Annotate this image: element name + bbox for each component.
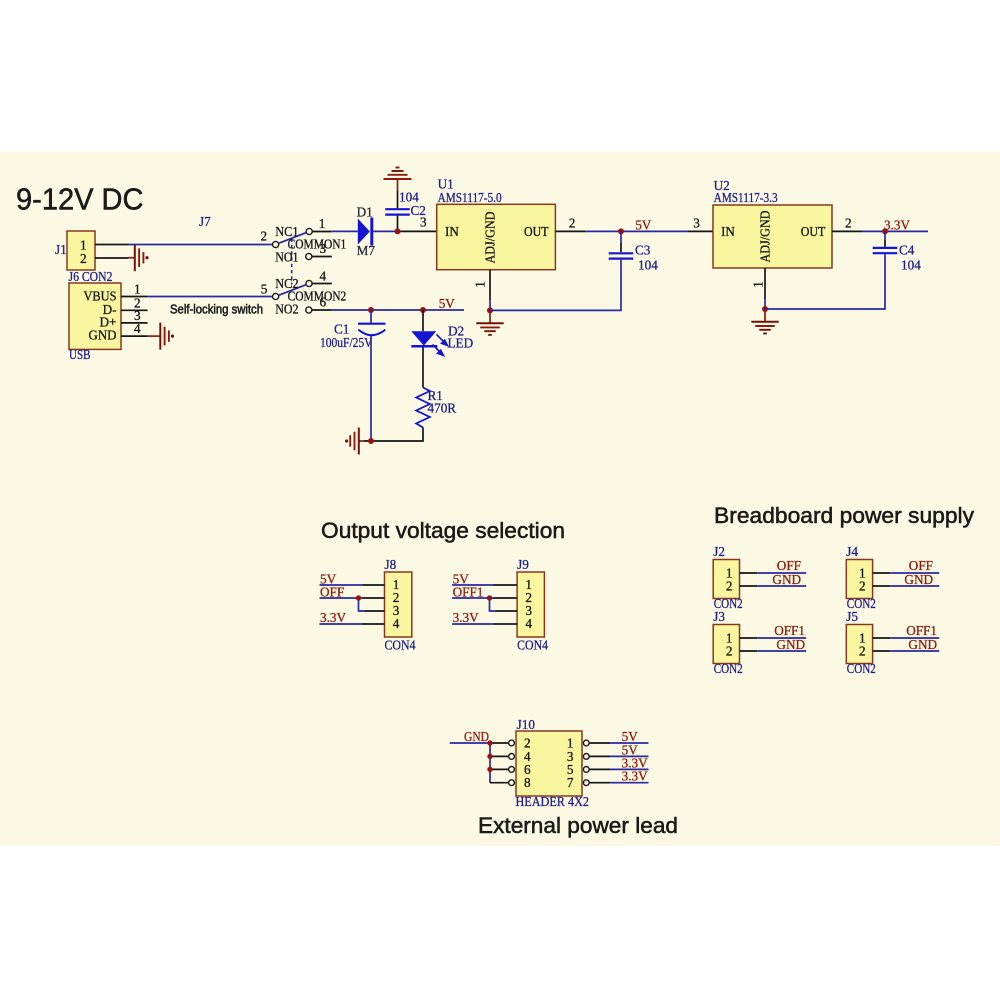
svg-text:ADJ/GND: ADJ/GND xyxy=(758,211,773,263)
wire J2 pin2 xyxy=(740,585,758,587)
wire GND to J10 xyxy=(450,742,490,744)
connector J4 xyxy=(846,560,872,599)
svg-text:NO2: NO2 xyxy=(275,302,298,317)
wire U2 IN pin3 stub xyxy=(687,230,713,232)
svg-text:GND: GND xyxy=(772,572,801,587)
pin circle J10 pin6 xyxy=(509,767,515,773)
svg-text:Output voltage selection: Output voltage selection xyxy=(321,518,565,543)
svg-text:GND: GND xyxy=(904,572,933,587)
junction D2 tap xyxy=(420,307,426,313)
wire D1 cathode to node xyxy=(373,230,400,232)
capacitor C2 xyxy=(385,208,410,210)
capacitor C3 xyxy=(609,252,634,254)
svg-text:OFF1: OFF1 xyxy=(774,623,805,638)
svg-text:J6 CON2: J6 CON2 xyxy=(69,269,113,284)
junction gnd C1 R1 xyxy=(368,438,374,444)
wire OFF1 to J9 pin2 xyxy=(452,597,493,599)
switch J7 NC1 circle pin1 xyxy=(306,228,312,234)
wire 5V to J9 pin1 xyxy=(452,584,493,586)
ground at J1 pin2 xyxy=(129,257,135,259)
switch J7 NC2 circle pin4 xyxy=(306,280,312,286)
svg-text:USB: USB xyxy=(69,347,91,362)
junction J10 gnd row1 xyxy=(487,740,492,745)
pin circle J10 pin4 xyxy=(509,754,515,760)
switch J7 link dashed xyxy=(291,239,293,285)
wire switch pin6 stub xyxy=(312,309,332,311)
wire switch pin1 to D1 anode xyxy=(332,230,358,232)
wire J4 pin1 xyxy=(873,572,891,574)
wire R1 bottom xyxy=(364,428,423,442)
wire J10 right stub pin3 xyxy=(589,755,610,757)
wire branch to J8 pin3 xyxy=(359,598,365,611)
wire J1 pin1 stub xyxy=(95,244,129,246)
wire U2 OUT pin2 stub xyxy=(832,230,862,232)
led D2 xyxy=(411,331,436,345)
connector J3 xyxy=(713,625,739,664)
svg-text:C2: C2 xyxy=(411,203,426,218)
resistor R1 xyxy=(416,388,430,428)
junction node D1 C2 U1 xyxy=(395,228,401,234)
connector J10 HEADER 4X2 xyxy=(516,731,582,796)
svg-text:ADJ/GND: ADJ/GND xyxy=(483,212,498,264)
wire J10 left stub pin8 xyxy=(490,782,508,784)
svg-text:GND: GND xyxy=(776,637,805,652)
junction J10 gnd row3 xyxy=(487,767,492,772)
svg-text:1: 1 xyxy=(319,216,326,231)
wire J3 pin1 xyxy=(740,637,758,639)
svg-text:3.3V: 3.3V xyxy=(884,218,910,233)
op-amp U1 AMS1117-5.0 body xyxy=(437,204,556,269)
wire J5 pin1 xyxy=(873,637,891,639)
svg-text:J5: J5 xyxy=(846,609,858,624)
svg-text:2: 2 xyxy=(261,229,268,244)
junction C1 tap xyxy=(368,307,374,313)
ground above C2 xyxy=(397,179,399,191)
svg-text:8: 8 xyxy=(524,775,531,790)
svg-text:3: 3 xyxy=(693,216,700,231)
svg-text:1: 1 xyxy=(751,281,766,288)
junction U1 gnd xyxy=(487,307,493,313)
junction U2 gnd xyxy=(762,306,768,312)
svg-text:3.3V: 3.3V xyxy=(453,610,479,625)
svg-text:D1: D1 xyxy=(357,205,373,220)
svg-text:J10: J10 xyxy=(517,717,536,732)
svg-text:IN: IN xyxy=(445,224,459,239)
svg-text:4: 4 xyxy=(525,616,532,631)
wire C4 to ground run xyxy=(765,254,885,309)
svg-text:C4: C4 xyxy=(899,243,915,258)
svg-text:2: 2 xyxy=(845,216,852,231)
connector J6 USB xyxy=(69,283,121,349)
svg-text:104: 104 xyxy=(901,258,921,273)
svg-text:J2: J2 xyxy=(713,544,725,559)
svg-text:J4: J4 xyxy=(846,544,858,559)
op-amp U2 AMS1117-3.3 body xyxy=(713,205,832,268)
svg-text:NO1: NO1 xyxy=(275,250,298,265)
svg-text:J3: J3 xyxy=(713,609,725,624)
svg-text:C3: C3 xyxy=(635,243,651,258)
wire C1 bottom lead xyxy=(370,336,372,441)
wire J10 gnd bus xyxy=(489,743,491,783)
wire J1 pin2 stub xyxy=(95,257,129,259)
svg-text:3: 3 xyxy=(320,241,327,256)
svg-text:4: 4 xyxy=(320,269,327,284)
wire USB pin3 stub xyxy=(121,322,148,324)
wire J10 left stub pin2 xyxy=(490,742,508,744)
svg-text:LED: LED xyxy=(448,336,474,351)
switch J7 pole2 common circle pin5 xyxy=(273,293,279,299)
wire node to U1 IN pin3 xyxy=(398,230,437,232)
wire C2 top lead xyxy=(397,191,399,208)
switch J7 pole2 lever xyxy=(279,285,307,296)
junction node 3.3V C4 xyxy=(882,228,888,234)
wire U1 OUT to U2 IN xyxy=(585,230,687,232)
svg-text:2: 2 xyxy=(569,216,576,231)
svg-text:J7: J7 xyxy=(199,214,211,229)
svg-text:OFF1: OFF1 xyxy=(453,585,484,600)
svg-text:CON2: CON2 xyxy=(847,661,876,676)
wire J2 pin1 xyxy=(740,572,758,574)
svg-text:IN: IN xyxy=(721,224,735,239)
svg-text:2: 2 xyxy=(859,644,866,659)
svg-text:OUT: OUT xyxy=(801,224,826,239)
svg-text:AMS1117-3.3: AMS1117-3.3 xyxy=(714,190,778,205)
switch J7 NO2 circle pin6 xyxy=(306,307,312,313)
svg-text:OFF: OFF xyxy=(777,558,801,573)
svg-text:5V: 5V xyxy=(635,218,652,233)
switch J7 pole1 common circle pin2 xyxy=(273,241,279,247)
wire C4 top lead xyxy=(884,231,886,240)
svg-text:1: 1 xyxy=(134,282,141,297)
svg-text:100uF/25V: 100uF/25V xyxy=(320,335,373,350)
svg-text:3.3V: 3.3V xyxy=(622,769,648,784)
wire branch to J9 pin3 xyxy=(490,598,496,611)
connector J2 xyxy=(713,560,739,599)
connector J9 xyxy=(517,572,544,637)
svg-text:HEADER 4X2: HEADER 4X2 xyxy=(516,794,590,809)
svg-text:2: 2 xyxy=(726,579,733,594)
svg-text:GND: GND xyxy=(908,637,937,652)
wire switch pin1 stub xyxy=(313,231,332,233)
svg-text:2: 2 xyxy=(726,644,733,659)
wire 5V to J8 pin1 xyxy=(320,584,363,586)
connector J8 xyxy=(385,572,412,637)
wire J10 left stub pin6 xyxy=(490,768,508,770)
junction J8 xyxy=(356,595,361,600)
svg-text:OFF: OFF xyxy=(909,558,933,573)
wire U2 pin1 down xyxy=(764,268,766,299)
svg-text:GND: GND xyxy=(89,328,117,343)
pin circle J10 pin1 xyxy=(583,740,589,746)
svg-text:7: 7 xyxy=(567,775,574,790)
switch J7 pole1 lever xyxy=(279,233,307,244)
wire J10 right stub pin1 xyxy=(589,742,610,744)
wire 3.3V to J9 pin4 xyxy=(452,623,493,625)
ground below U2 xyxy=(764,309,766,322)
ground bottom left xyxy=(359,440,364,442)
wire C3 top lead xyxy=(620,231,622,243)
wire USB VBUS to switch pin5 xyxy=(148,296,273,298)
wire switch pin3 stub xyxy=(312,256,332,258)
wire J3 pin2 xyxy=(740,650,758,652)
svg-text:Breadboard power supply: Breadboard power supply xyxy=(714,503,975,528)
pin circle J10 pin7 xyxy=(583,780,589,786)
wire J4 pin2 xyxy=(873,585,891,587)
wire C3 to ground run xyxy=(490,260,621,311)
wire J10 right stub pin7 xyxy=(589,782,610,784)
svg-text:5V: 5V xyxy=(439,296,456,311)
wire J10 left stub pin4 xyxy=(490,755,508,757)
svg-text:J1: J1 xyxy=(55,242,67,257)
connector J1 xyxy=(67,231,95,270)
wire U1 pin1 down xyxy=(489,270,491,300)
wire USB pin1 stub xyxy=(121,296,148,298)
svg-text:2: 2 xyxy=(859,579,866,594)
junction node 5V C3 xyxy=(618,228,624,234)
wire 3.3V to J8 pin4 xyxy=(320,623,363,625)
pin circle J10 pin3 xyxy=(583,754,589,760)
wire C2 bottom lead xyxy=(397,216,399,232)
svg-text:OUT: OUT xyxy=(524,224,549,239)
svg-text:9-12V DC: 9-12V DC xyxy=(16,182,144,217)
pin circle J10 pin8 xyxy=(509,780,515,786)
svg-text:AMS1117-5.0: AMS1117-5.0 xyxy=(438,190,502,205)
svg-text:1: 1 xyxy=(473,281,488,288)
wire OFF to J8 pin2 xyxy=(320,597,363,599)
svg-text:5: 5 xyxy=(261,282,268,297)
diode D1 xyxy=(358,219,370,245)
junction J10 gnd row2 xyxy=(487,754,492,759)
switch J7 NO1 circle pin3 xyxy=(306,253,312,259)
svg-text:GND: GND xyxy=(464,729,489,744)
capacitor C4 xyxy=(873,247,898,249)
ground at USB GND xyxy=(148,335,161,337)
ground below U1 ADJ xyxy=(489,310,491,323)
wire 3.3V net xyxy=(862,230,928,232)
svg-text:OFF1: OFF1 xyxy=(906,623,937,638)
svg-text:104: 104 xyxy=(638,258,658,273)
svg-text:2: 2 xyxy=(80,251,87,266)
svg-text:J9: J9 xyxy=(517,557,529,572)
pin circle J10 pin5 xyxy=(583,767,589,773)
svg-text:External power lead: External power lead xyxy=(478,813,678,838)
pin circle J10 pin2 xyxy=(509,740,515,746)
svg-text:J8: J8 xyxy=(385,557,397,572)
svg-text:Self-locking switch: Self-locking switch xyxy=(170,303,263,317)
wire USB pin4 stub xyxy=(121,335,148,337)
svg-text:470R: 470R xyxy=(428,401,457,416)
svg-text:CON2: CON2 xyxy=(714,661,743,676)
connector J5 xyxy=(846,625,872,664)
wire 5V rail xyxy=(332,309,464,311)
wire U1 OUT pin2 stub xyxy=(555,230,585,232)
wire D2 top lead xyxy=(422,310,424,331)
wire C1 top lead xyxy=(370,310,372,323)
wire USB pin2 stub xyxy=(121,309,148,311)
svg-text:CON4: CON4 xyxy=(517,638,548,653)
svg-text:M7: M7 xyxy=(357,243,376,258)
svg-text:6: 6 xyxy=(320,295,327,310)
svg-text:CON4: CON4 xyxy=(385,638,416,653)
wire J5 pin2 xyxy=(873,650,891,652)
wire J10 right stub pin5 xyxy=(589,768,610,770)
wire J1 pin1 to switch pin2 xyxy=(129,244,273,246)
wire switch pin4 stub xyxy=(312,283,332,285)
capacitor C1 xyxy=(358,323,386,325)
svg-text:4: 4 xyxy=(393,616,400,631)
junction J9 xyxy=(487,595,492,600)
svg-text:3.3V: 3.3V xyxy=(320,610,346,625)
svg-text:OFF: OFF xyxy=(320,585,344,600)
wire D2 to R1 xyxy=(422,348,424,388)
